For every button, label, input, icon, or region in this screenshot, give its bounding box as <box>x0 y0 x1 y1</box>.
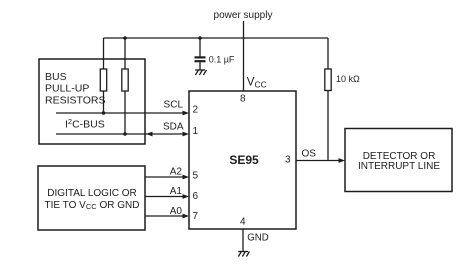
wire A2 <box>145 176 186 178</box>
svg-text:A2: A2 <box>170 167 183 178</box>
wire rail right drop to R3 <box>327 38 329 69</box>
svg-text:5: 5 <box>193 170 199 181</box>
node junction C1-rail <box>198 36 202 40</box>
box bus pull-up resistors <box>39 59 145 144</box>
box detector or interrupt line <box>345 129 452 192</box>
wire OS output <box>296 160 342 162</box>
wire A1 <box>145 196 186 198</box>
resistor R1 pull-up SCL <box>100 69 106 91</box>
wire R3 bottom lead <box>327 91 329 161</box>
wire rail left drop to R1 <box>103 38 105 69</box>
box digital logic <box>38 166 145 230</box>
svg-text:6: 6 <box>193 191 199 202</box>
svg-text:TIE TO VCC OR GND: TIE TO VCC OR GND <box>45 200 140 211</box>
svg-text:2: 2 <box>193 105 199 116</box>
svg-text:10 kΩ: 10 kΩ <box>336 74 360 84</box>
svg-text:1: 1 <box>193 126 199 137</box>
wire R2 bottom lead <box>124 91 126 134</box>
wire GND lead <box>242 229 244 252</box>
node junction R1-SCL <box>102 111 106 115</box>
svg-text:INTERRUPT LINE: INTERRUPT LINE <box>358 161 440 172</box>
wire R1 bottom lead <box>103 91 105 113</box>
wire A0 <box>145 215 186 217</box>
capacitor C1 0.1uF <box>195 56 206 58</box>
node junction R2-rail <box>123 36 127 40</box>
svg-text:SCL: SCL <box>164 100 184 111</box>
svg-text:0.1 µF: 0.1 µF <box>209 54 235 64</box>
wire rail drop to C1 <box>199 38 201 57</box>
svg-text:3: 3 <box>285 154 291 165</box>
svg-text:A1: A1 <box>170 186 183 197</box>
wire power supply lead <box>243 21 245 91</box>
svg-text:4: 4 <box>240 217 246 228</box>
wire rail drop to R2 <box>124 38 126 69</box>
ground C1 <box>195 70 206 75</box>
svg-text:GND: GND <box>247 233 269 244</box>
svg-text:VCC: VCC <box>247 77 267 90</box>
node junction R2-SDA <box>123 132 127 136</box>
svg-text:A0: A0 <box>170 206 183 217</box>
op IC U1 SE95 <box>189 91 296 229</box>
svg-text:RESISTORS: RESISTORS <box>45 94 106 106</box>
svg-text:SDA: SDA <box>163 122 184 133</box>
svg-text:PULL-UP: PULL-UP <box>45 83 89 95</box>
svg-text:7: 7 <box>193 211 199 222</box>
wire power rail <box>104 37 329 39</box>
resistor R3 10k <box>325 69 331 91</box>
svg-text:8: 8 <box>240 93 246 104</box>
wire SDA bidirectional <box>56 133 186 135</box>
svg-text:BUS: BUS <box>45 71 67 83</box>
svg-text:DIGITAL LOGIC OR: DIGITAL LOGIC OR <box>47 188 136 199</box>
wire SCL <box>56 112 186 114</box>
ground GND <box>238 252 249 257</box>
svg-text:power supply: power supply <box>214 10 273 21</box>
svg-text:OS: OS <box>302 149 317 160</box>
resistor R2 pull-up SDA <box>122 69 128 91</box>
svg-text:DETECTOR OR: DETECTOR OR <box>363 151 436 162</box>
svg-text:SE95: SE95 <box>229 153 259 167</box>
